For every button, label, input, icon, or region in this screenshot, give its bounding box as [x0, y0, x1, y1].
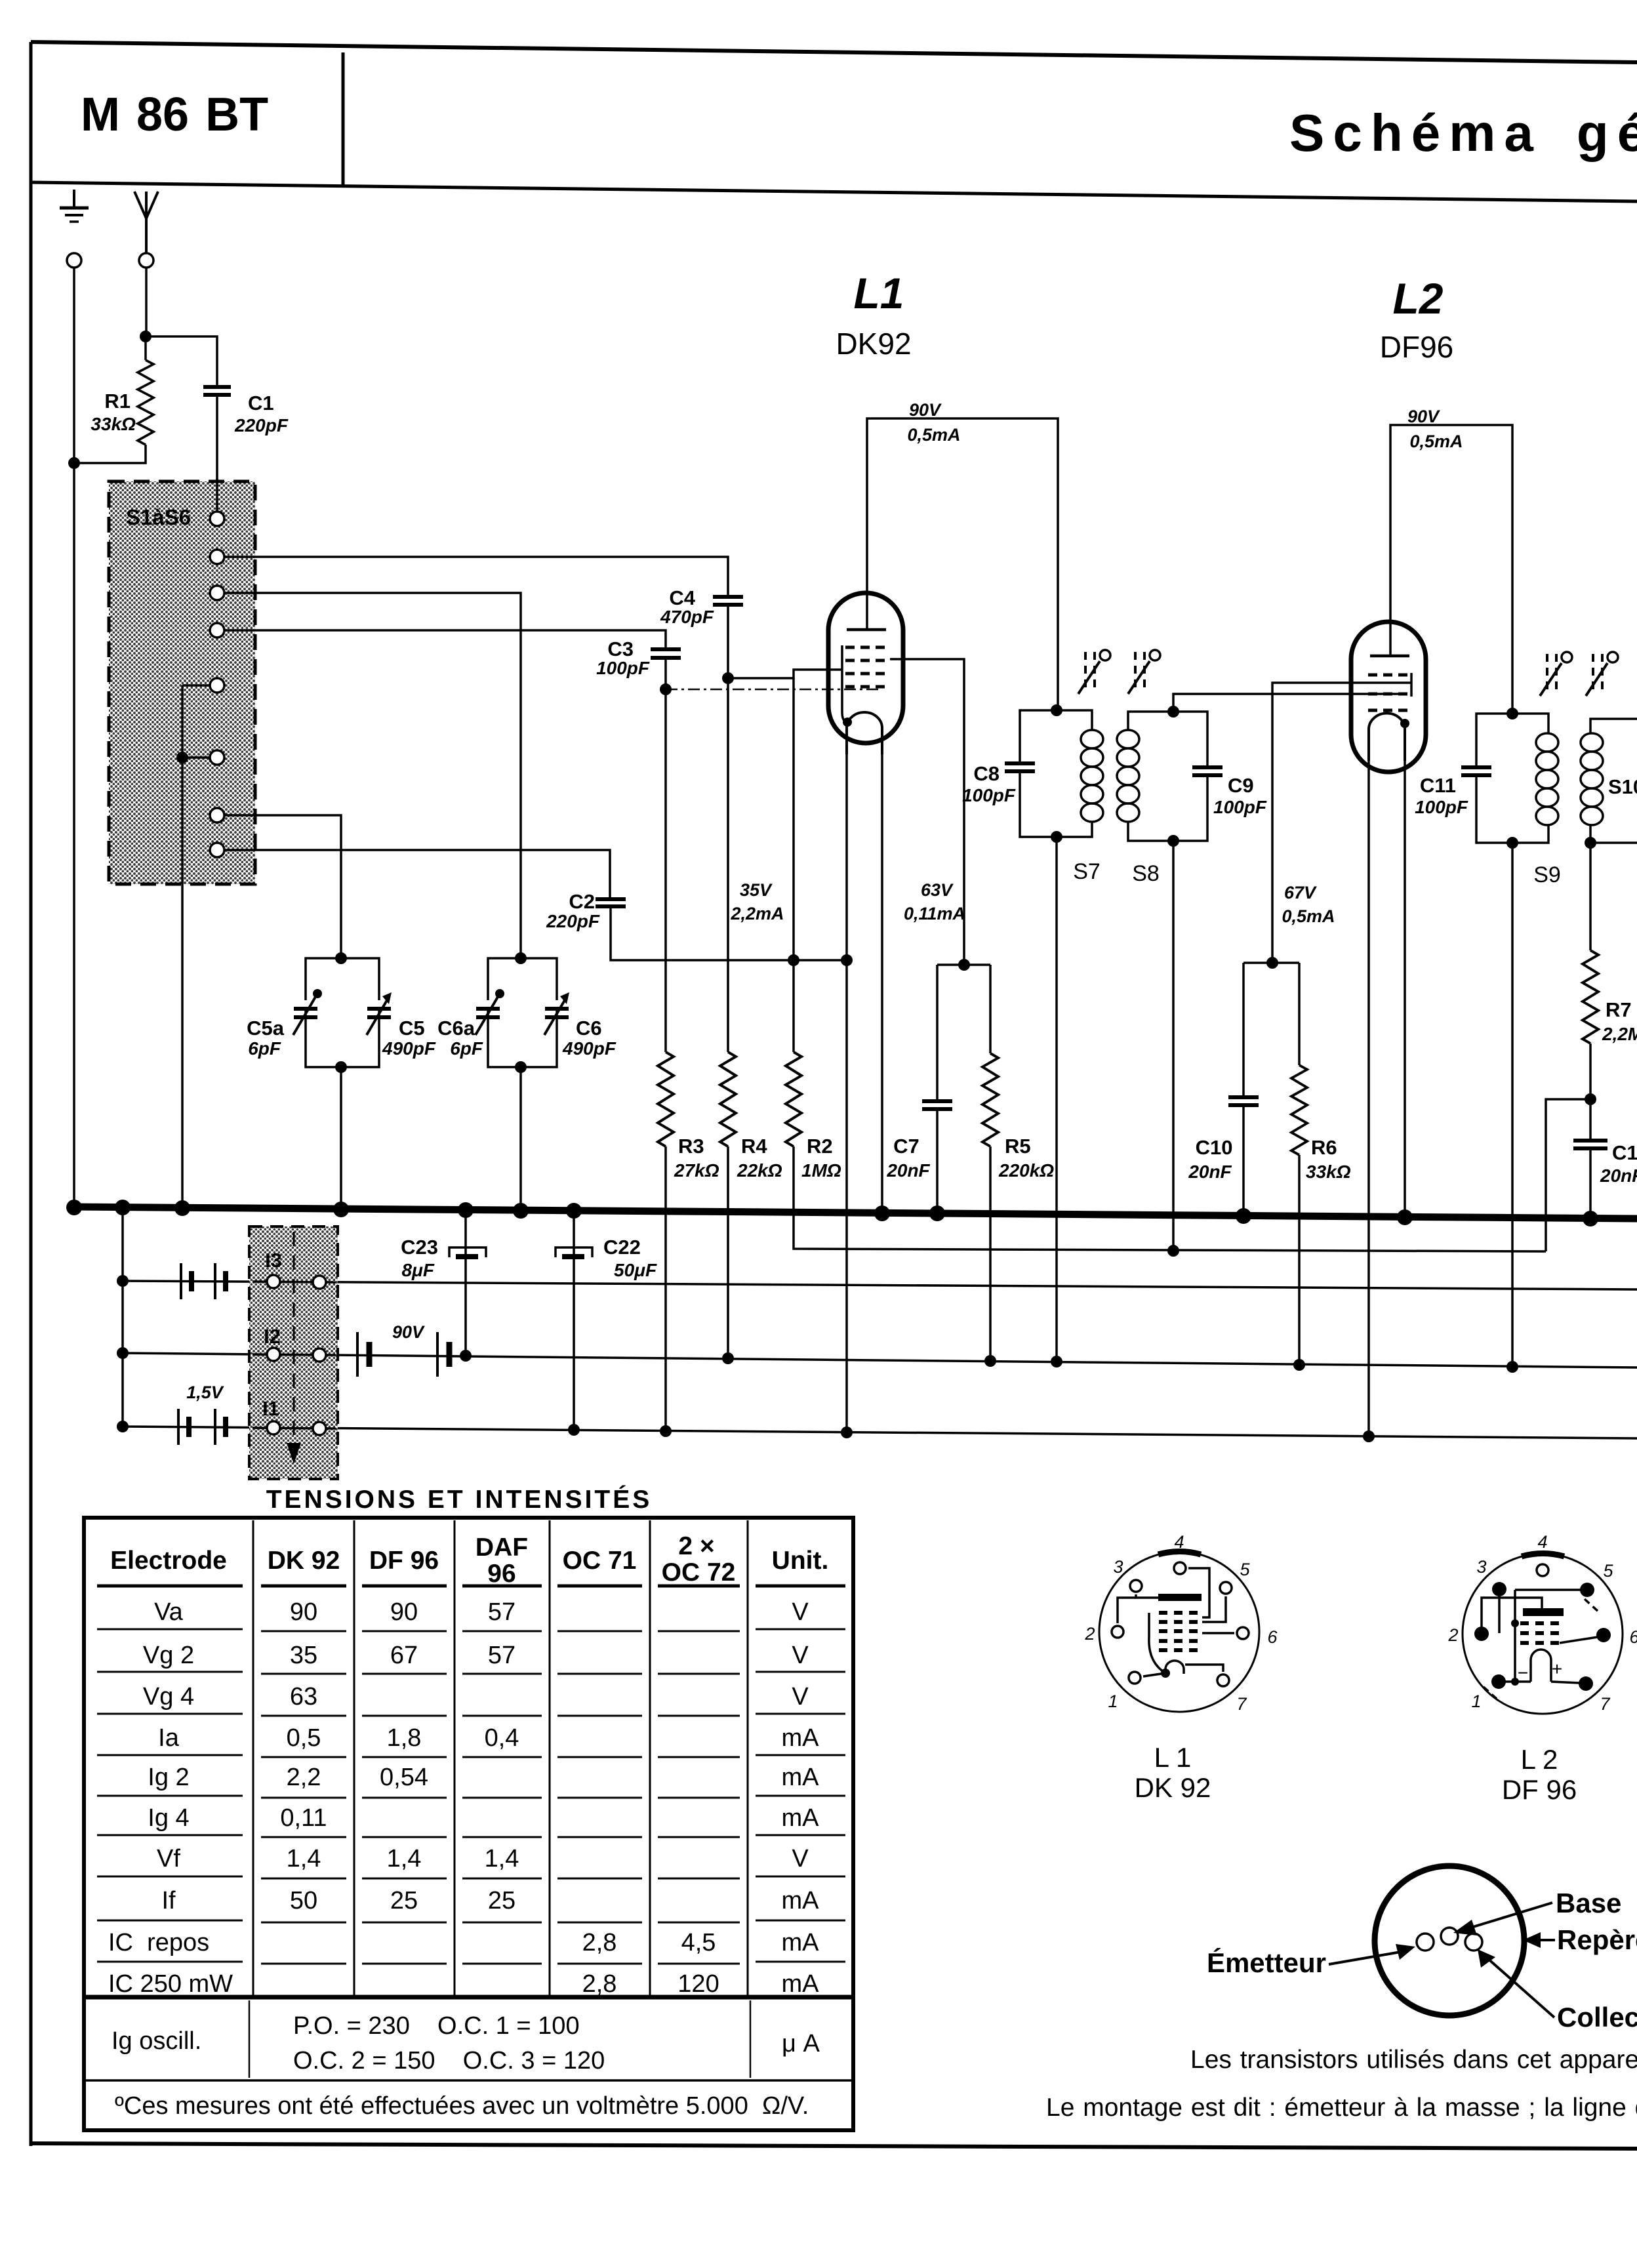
svg-text:63V: 63V [921, 880, 954, 900]
collector arrowhead [1478, 1949, 1495, 1968]
capacitor C3 [651, 649, 681, 658]
resistor R1 [138, 360, 153, 445]
antenna terminal [139, 253, 153, 268]
socket L2 internal wires [1482, 1590, 1599, 1700]
capacitor C1 [203, 387, 231, 395]
svg-text:2,8: 2,8 [582, 1970, 617, 1998]
wire switch common down to bus [181, 758, 184, 1209]
tube socket L1 DK92 outline [1099, 1552, 1259, 1712]
node switch internal junction [176, 752, 188, 763]
node C5 group top [335, 952, 347, 964]
wire junction to R1 top [144, 336, 147, 360]
svg-text:S8: S8 [1132, 861, 1160, 886]
svg-text:Collec: Collec [1557, 2002, 1637, 2033]
capacitor C22 electrolytic [556, 1247, 592, 1257]
svg-text:Ig 4: Ig 4 [148, 1804, 189, 1832]
node C10/R6 junction [1266, 957, 1278, 969]
svg-text:L1: L1 [853, 269, 904, 317]
table row If [161, 1887, 819, 1914]
node row I2 S9 [1506, 1361, 1518, 1373]
svg-text:90: 90 [290, 1598, 317, 1626]
socket L1 pin 3 [1130, 1580, 1142, 1592]
wire to C10 [1242, 963, 1245, 1097]
table row Vf [157, 1845, 809, 1873]
node S10 bottom [1585, 837, 1596, 849]
resistor R7 [1583, 950, 1598, 1043]
svg-text:90V: 90V [392, 1322, 425, 1342]
svg-text:L 2: L 2 [1521, 1744, 1558, 1775]
ground bus line [72, 1207, 1637, 1219]
svg-text:2: 2 [1447, 1625, 1458, 1645]
svg-text:2,2: 2,2 [287, 1764, 321, 1791]
svg-text:DK92: DK92 [836, 327, 911, 361]
node C3/R3 junction [660, 683, 672, 695]
inductor S7 coil [1081, 730, 1103, 822]
node C6 group top [515, 952, 527, 964]
svg-text:P.O. = 230 O.C. 1 = 100: P.O. = 230 O.C. 1 = 100 [293, 2012, 580, 2040]
wire C7 to bus [936, 1109, 939, 1213]
node bus L2 filament [1397, 1209, 1413, 1225]
wire C5 group down to bus [340, 1067, 342, 1209]
svg-text:mA: mA [782, 1929, 820, 1956]
tube L2 filament arch [1369, 714, 1405, 761]
title band underline [31, 182, 1637, 201]
table row Vg2 [143, 1642, 809, 1669]
wire row I3 [123, 1281, 1637, 1289]
svg-text:220kΩ: 220kΩ [998, 1160, 1054, 1181]
svg-text:I2: I2 [264, 1325, 281, 1348]
capacitor C8 [1005, 763, 1035, 771]
wire dash-dot grid line to tube L1 [666, 689, 882, 691]
resistor R4 [720, 1052, 736, 1146]
wire terminal2 to C4 [224, 557, 728, 597]
node row I2 R6 [1293, 1359, 1305, 1371]
svg-text:mA: mA [782, 1970, 820, 1998]
switch terminal 7 [210, 808, 224, 822]
svg-text:V: V [792, 1845, 809, 1873]
table row Vg4 [143, 1683, 809, 1711]
svg-text:R6: R6 [1311, 1136, 1337, 1159]
svg-text:490pF: 490pF [382, 1038, 436, 1059]
svg-text:S7: S7 [1073, 859, 1101, 884]
capacitor C7 [922, 1101, 952, 1109]
svg-text:0,4: 0,4 [485, 1724, 519, 1752]
node S9 bottom [1506, 837, 1518, 849]
svg-text:6: 6 [1267, 1627, 1278, 1647]
resistor R2 [786, 1052, 801, 1146]
node rail row I1 [117, 1421, 129, 1432]
svg-text:100pF: 100pF [596, 658, 650, 678]
node S7 bottom [1051, 831, 1062, 843]
repere arrowhead [1523, 1932, 1541, 1948]
table row Ig4 [148, 1804, 819, 1832]
terminal I3 left [267, 1275, 280, 1288]
table Ig oscill column separators [249, 2000, 750, 2078]
node C6 group bottom [515, 1061, 527, 1073]
svg-text:7: 7 [1236, 1694, 1247, 1714]
svg-text:Ia: Ia [158, 1724, 180, 1752]
svg-text:mA: mA [782, 1887, 820, 1914]
wire C3 node to R3 [664, 689, 667, 1052]
socket L1 pin 4 [1174, 1562, 1186, 1574]
svg-text:C3: C3 [607, 638, 634, 660]
node tube L1 cathode [843, 718, 852, 727]
node screen junction [958, 959, 970, 971]
svg-text:4: 4 [1537, 1532, 1547, 1552]
trimmer over S8 [1128, 650, 1160, 694]
svg-text:μ A: μ A [782, 2030, 820, 2057]
svg-text:V: V [792, 1683, 809, 1711]
wire R5 to row I2 [989, 1146, 992, 1361]
svg-text:Émetteur: Émetteur [1207, 1947, 1326, 1978]
svg-text:3: 3 [1476, 1557, 1486, 1577]
wire 90V anode rail L1 [867, 418, 1058, 710]
svg-text:S10: S10 [1608, 775, 1637, 798]
wire S9 bottom to row I2 [1511, 843, 1514, 1367]
IF transformer S8 tank box [1128, 712, 1207, 841]
svg-text:Vg 4: Vg 4 [143, 1683, 194, 1711]
trimmer capacitor C6a [475, 989, 504, 1035]
node bus C22 [566, 1203, 582, 1219]
wire R1 bottom to ground wire [74, 445, 146, 463]
node bus ground wire [66, 1200, 82, 1215]
page border frame: left line [30, 42, 33, 2146]
svg-text:mA: mA [782, 1764, 820, 1791]
repere pointer line [1538, 1939, 1555, 1941]
emitter arrowhead [1396, 1944, 1415, 1960]
wire row I1 [123, 1427, 1637, 1438]
switch terminal 1 [210, 512, 224, 526]
wire C6 group down to bus [519, 1067, 522, 1210]
wire L1 filament left down to row I1 [845, 753, 848, 1432]
wire R2 top node to zigzag [792, 960, 795, 1052]
svg-text:1,4: 1,4 [287, 1845, 321, 1873]
wire switch internal vertical [181, 685, 184, 758]
capacitor C9 [1192, 767, 1223, 775]
wire C10 to bus [1242, 1105, 1245, 1216]
table header texts [110, 1532, 828, 1588]
tube L2 grid rows [1368, 675, 1409, 710]
node bus C23 [458, 1202, 474, 1218]
svg-text:C8: C8 [973, 762, 1000, 785]
svg-text:IC repos: IC repos [108, 1929, 209, 1956]
svg-text:DF 96: DF 96 [369, 1547, 439, 1575]
wire L2 screen to C10/R6 junction [1272, 683, 1411, 963]
tube L2 envelope [1351, 622, 1426, 772]
wire row I2 through battery box [253, 1354, 336, 1355]
switch terminal 5 [210, 678, 224, 693]
transistor collector lead circle [1465, 1934, 1482, 1951]
terminal I2 right [313, 1348, 326, 1362]
wire 90V anode rail L2 [1390, 425, 1512, 714]
socket L1 pin 1 [1129, 1672, 1141, 1684]
svg-text:C10: C10 [1196, 1136, 1233, 1159]
node bus C10 [1236, 1208, 1251, 1224]
switch terminal 6 [210, 750, 224, 765]
trimmer over S7 [1078, 650, 1110, 694]
wire C23 bus to row I2 [464, 1210, 467, 1356]
svg-text:+: + [1552, 1659, 1562, 1679]
svg-text:Unit.: Unit. [772, 1547, 829, 1575]
svg-text:Vf: Vf [157, 1845, 180, 1873]
svg-text:Electrode: Electrode [110, 1547, 227, 1575]
wire to R5 [989, 965, 992, 1053]
wire C14 to bus [1589, 1148, 1592, 1219]
svg-text:Repère: Repère [1557, 1924, 1637, 1955]
node bus C14 [1583, 1211, 1598, 1226]
wire C4 bottom to junction [727, 605, 729, 678]
table row separator lines [97, 1629, 845, 1964]
svg-text:If: If [161, 1887, 176, 1914]
svg-text:22kΩ: 22kΩ [737, 1160, 782, 1181]
svg-text:M 86 BT: M 86 BT [81, 89, 268, 141]
svg-text:25: 25 [390, 1887, 418, 1914]
IF transformer S10 tank (cut at page edge) [1590, 719, 1637, 843]
terminal I3 right [313, 1276, 326, 1289]
wire row I3 through battery box [253, 1282, 336, 1282]
transistor case circle [1375, 1866, 1524, 2015]
wire terminal7 to C5 group [224, 815, 341, 958]
variable capacitor C5 [367, 992, 392, 1035]
battery 1,5V cell row I1 [178, 1409, 226, 1445]
svg-text:1,4: 1,4 [387, 1845, 422, 1873]
resistor R3 [658, 1052, 674, 1146]
inductor S8 coil [1117, 730, 1139, 822]
svg-text:mA: mA [782, 1804, 820, 1832]
svg-text:1,5V: 1,5V [186, 1383, 224, 1402]
svg-text:57: 57 [488, 1598, 515, 1626]
svg-text:3: 3 [1113, 1557, 1123, 1577]
variable capacitor C6 [544, 992, 569, 1035]
table row Ig oscill [111, 2012, 820, 2075]
trimmer over S10 [1586, 652, 1618, 696]
svg-text:1: 1 [1108, 1691, 1118, 1711]
capacitor C10 [1228, 1097, 1259, 1105]
wire R2 column upper [792, 678, 795, 960]
svg-text:Ig oscill.: Ig oscill. [111, 2027, 201, 2055]
svg-text:96: 96 [487, 1560, 515, 1588]
antenna symbol [134, 192, 158, 253]
tube socket L2 top thick arc [1522, 1554, 1564, 1556]
svg-text:8μF: 8μF [401, 1260, 434, 1280]
svg-text:R5: R5 [1005, 1135, 1031, 1158]
svg-text:25: 25 [488, 1887, 515, 1914]
svg-text:S1àS6: S1àS6 [126, 505, 191, 529]
svg-text:1,4: 1,4 [485, 1845, 519, 1873]
wire R7 to AVC node [1589, 1043, 1592, 1099]
table separator above note row [84, 2079, 853, 2082]
svg-text:67: 67 [390, 1642, 418, 1669]
variable capacitor group C5a/C5 box [306, 958, 379, 1067]
wire L2 filament left down to row I1 [1367, 759, 1370, 1436]
svg-text:4,5: 4,5 [681, 1929, 716, 1956]
svg-text:L2: L2 [1392, 274, 1443, 323]
tube L2 screen bracket [1410, 673, 1413, 697]
emitter pointer line [1329, 1952, 1401, 1964]
svg-text:V: V [792, 1642, 809, 1669]
node row I1 C22 [568, 1424, 580, 1436]
svg-text:2,2mA: 2,2mA [730, 904, 784, 923]
socket L2 pin 6 [1596, 1628, 1611, 1642]
svg-text:57: 57 [488, 1642, 515, 1669]
svg-text:0,5: 0,5 [287, 1724, 321, 1752]
wire to R6 [1298, 963, 1301, 1065]
svg-text:Vg 2: Vg 2 [143, 1642, 194, 1669]
wire R4 to row I2 [727, 1146, 729, 1358]
node R7/C14/AVC junction [1585, 1093, 1596, 1105]
svg-text:0,54: 0,54 [380, 1764, 428, 1791]
socket L1 pin 5 [1220, 1582, 1232, 1594]
svg-text:1,8: 1,8 [387, 1724, 422, 1752]
svg-text:L 1: L 1 [1154, 1742, 1192, 1773]
svg-text:35V: 35V [740, 880, 773, 900]
table outer border [84, 1518, 853, 2130]
table row IC 250 mW [108, 1970, 819, 1998]
wire junction to C1 [146, 336, 217, 387]
wire battery left rail [121, 1207, 124, 1427]
node bus C7 [929, 1205, 945, 1221]
svg-text:C22: C22 [603, 1236, 641, 1259]
wire row I2 [123, 1353, 1637, 1367]
table header underline [97, 1585, 845, 1588]
variable capacitor group C6a/C6 box [488, 958, 557, 1067]
svg-text:O.C. 2 = 150 O.C. 3 = 120: O.C. 2 = 150 O.C. 3 = 120 [293, 2047, 605, 2075]
node bus L1 filament [874, 1205, 890, 1221]
wire R6 to row I2 [1298, 1155, 1301, 1365]
node C4/R4/grid junction [722, 672, 734, 684]
switch terminal 3 [210, 586, 224, 600]
svg-text:Schéma gé: Schéma gé [1289, 104, 1637, 162]
wire switch internal terminal6 left [182, 756, 210, 759]
svg-text:63: 63 [290, 1683, 317, 1711]
svg-text:C14: C14 [1612, 1141, 1637, 1164]
resistor R5 [982, 1053, 998, 1146]
wire S7 bottom to row I2 [1055, 837, 1058, 1362]
socket L2 pin 3 [1492, 1582, 1506, 1596]
svg-text:220pF: 220pF [234, 415, 289, 435]
svg-text:120: 120 [677, 1970, 719, 1998]
svg-text:DF96: DF96 [1380, 330, 1453, 364]
svg-text:100pF: 100pF [1415, 797, 1468, 817]
terminal I1 right [313, 1422, 326, 1435]
node S7 top [1051, 704, 1062, 716]
node row I1 R3 [660, 1425, 672, 1437]
capacitor C14 [1573, 1141, 1607, 1148]
svg-text:67V: 67V [1284, 883, 1317, 902]
switch terminal 2 [210, 550, 224, 564]
svg-text:490pF: 490pF [562, 1038, 616, 1059]
node row I2 C23 [460, 1350, 472, 1362]
table thick separator above Ig oscill [84, 1995, 853, 2000]
socket L1 pin 2 [1112, 1626, 1123, 1638]
node socket L1 cathode dot [1161, 1669, 1170, 1678]
svg-text:R4: R4 [741, 1135, 767, 1158]
wire screen junction bar [937, 963, 990, 966]
wire C3 bottom to junction [664, 658, 667, 689]
node row I2 S7 [1051, 1356, 1062, 1367]
wire terminal8 to C2 [224, 850, 610, 899]
svg-text:27kΩ: 27kΩ [674, 1160, 719, 1181]
svg-text:DK 92: DK 92 [268, 1547, 340, 1575]
svg-text:100pF: 100pF [962, 785, 1016, 805]
svg-text:C5: C5 [399, 1017, 425, 1040]
node tube L2 cathode [1400, 719, 1409, 728]
svg-text:Les transistors utilisés dans: Les transistors utilisés dans cet appare… [1190, 2046, 1637, 2074]
svg-text:20nF: 20nF [1600, 1165, 1637, 1186]
capacitor C4 [713, 597, 743, 605]
wire C4 node to R4 [727, 678, 729, 1052]
svg-text:6pF: 6pF [248, 1038, 281, 1059]
svg-text:DF 96: DF 96 [1502, 1774, 1577, 1805]
svg-text:6pF: 6pF [450, 1038, 483, 1059]
svg-text:20nF: 20nF [1188, 1162, 1232, 1182]
svg-text:R2: R2 [807, 1135, 833, 1158]
table row Ig2 [148, 1764, 819, 1791]
svg-text:6: 6 [1629, 1627, 1637, 1647]
node R1 bottom to ground [68, 457, 80, 469]
base arrowhead [1453, 1920, 1477, 1935]
table row IC repos [108, 1929, 819, 1956]
svg-text:C11: C11 [1420, 774, 1456, 797]
svg-text:470pF: 470pF [660, 607, 714, 627]
node S8/AVC junction [1167, 1245, 1179, 1257]
node bus C5 group [333, 1202, 349, 1217]
node antenna junction [140, 331, 152, 342]
wire to C7 [936, 965, 939, 1101]
svg-text:1MΩ: 1MΩ [801, 1160, 841, 1181]
title block divider [342, 52, 345, 188]
svg-text:2,8: 2,8 [582, 1929, 617, 1956]
battery 90V row I2 [357, 1332, 449, 1377]
socket L2 pin 4 open [1537, 1564, 1548, 1576]
socket L2 filament arch [1531, 1650, 1551, 1682]
svg-text:DAF: DAF [475, 1533, 528, 1562]
svg-text:mA: mA [782, 1724, 820, 1752]
wire L2 filament right down to bus [1404, 759, 1406, 1217]
node bus battery rail [115, 1200, 131, 1215]
svg-text:V: V [792, 1598, 809, 1626]
wire C14 top [1589, 1099, 1592, 1141]
transistor base lead circle [1441, 1928, 1458, 1945]
svg-text:50μF: 50μF [614, 1260, 657, 1280]
inductor S9 coil [1536, 733, 1558, 825]
socket L2 pin 5 [1580, 1583, 1594, 1597]
socket L1 anode bar [1158, 1594, 1202, 1601]
transistor emitter lead circle [1417, 1934, 1434, 1951]
svg-text:C7: C7 [893, 1135, 920, 1158]
socket L1 grid rows [1159, 1613, 1202, 1650]
svg-text:C4: C4 [669, 586, 695, 609]
wire switch internal terminal5 left [182, 684, 210, 687]
svg-text:5: 5 [1603, 1561, 1613, 1581]
ground terminal [67, 253, 81, 268]
node S8 bottom [1167, 835, 1179, 847]
svg-text:7: 7 [1600, 1694, 1610, 1714]
socket L2 pin 7 [1579, 1676, 1593, 1691]
node rail row I2 [117, 1347, 129, 1359]
svg-text:33kΩ: 33kΩ [1306, 1162, 1351, 1182]
switch terminal 8 [210, 843, 224, 857]
wire S8 bottom to AVC line [1172, 841, 1175, 1251]
wire row I1 through battery box [253, 1428, 336, 1428]
wire terminal3 to C6 group [224, 593, 521, 958]
base pointer line [1466, 1903, 1552, 1929]
svg-text:20nF: 20nF [886, 1160, 930, 1181]
page border frame: top line [31, 42, 1637, 62]
node row I2 R5 [984, 1355, 996, 1367]
svg-text:2 ×: 2 × [678, 1532, 714, 1560]
resistor R6 [1291, 1065, 1307, 1155]
